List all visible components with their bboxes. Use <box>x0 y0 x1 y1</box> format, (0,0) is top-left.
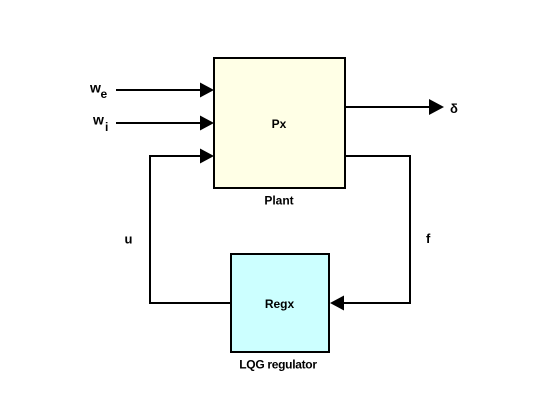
wire u horizontal into Px <box>150 155 202 157</box>
svg-text:Regx: Regx <box>265 297 295 311</box>
arrowhead delta output <box>429 99 444 115</box>
svg-text:LQG regulator: LQG regulator <box>239 358 317 372</box>
wire wi input <box>116 122 202 124</box>
svg-text:f: f <box>426 231 431 246</box>
wire delta output <box>344 106 431 108</box>
svg-text:δ: δ <box>450 101 458 116</box>
wire u vertical <box>149 155 151 304</box>
wire f vertical <box>409 155 411 304</box>
wire f horizontal from Px output <box>344 155 411 157</box>
wire we input <box>116 89 202 91</box>
arrowhead f into Regx <box>330 296 344 311</box>
svg-text:w: w <box>92 112 104 128</box>
svg-text:e: e <box>101 87 108 101</box>
arrowhead u into Px <box>200 149 214 164</box>
wire f horizontal into Regx <box>342 302 411 304</box>
block U1 Plant (Px) <box>214 58 345 188</box>
block U2 LQG regulator (Regx) <box>231 254 329 352</box>
svg-text:u: u <box>125 232 133 247</box>
svg-text:Plant: Plant <box>264 194 293 208</box>
svg-text:w: w <box>89 80 101 96</box>
arrowhead we into Px <box>200 83 214 98</box>
svg-text:Px: Px <box>272 117 287 131</box>
wire u horizontal from Regx output <box>149 302 231 304</box>
arrowhead wi into Px <box>200 116 214 131</box>
svg-text:i: i <box>105 120 108 134</box>
